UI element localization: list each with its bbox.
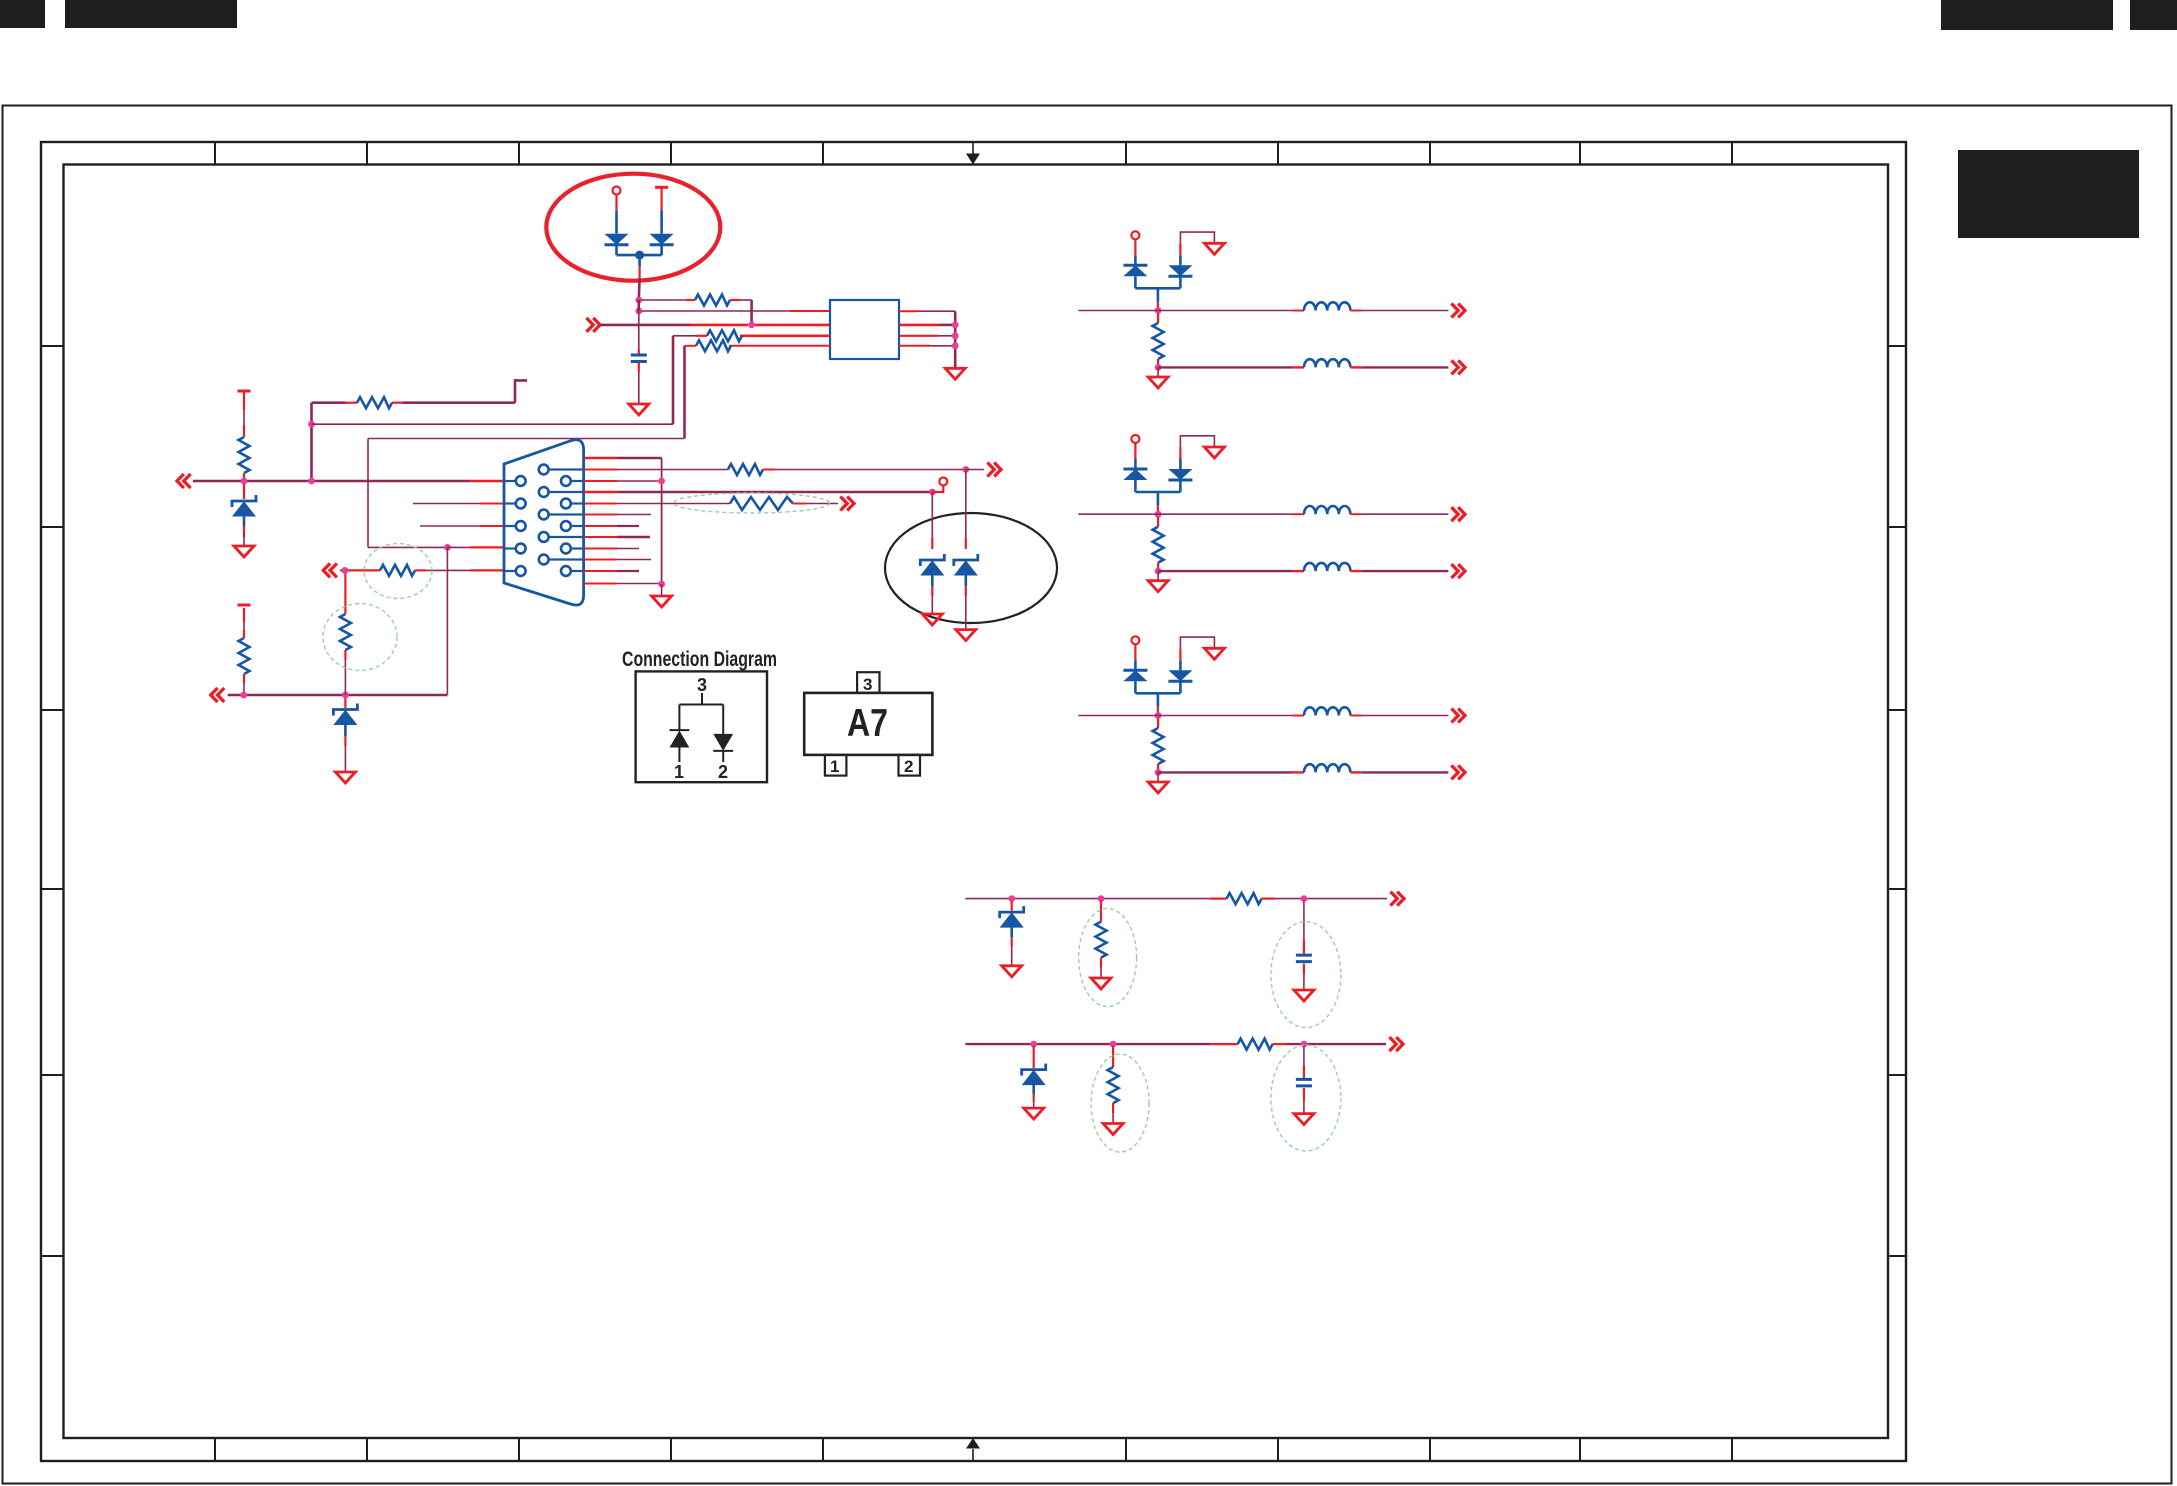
svg-text:A7: A7 xyxy=(847,702,888,745)
svg-text:1: 1 xyxy=(830,757,839,776)
svg-text:2: 2 xyxy=(718,762,728,782)
svg-text:Connection Diagram: Connection Diagram xyxy=(622,648,777,671)
svg-text:3: 3 xyxy=(863,675,872,694)
svg-text:1: 1 xyxy=(674,762,684,782)
svg-text:2: 2 xyxy=(904,757,913,776)
svg-text:3: 3 xyxy=(697,675,707,695)
